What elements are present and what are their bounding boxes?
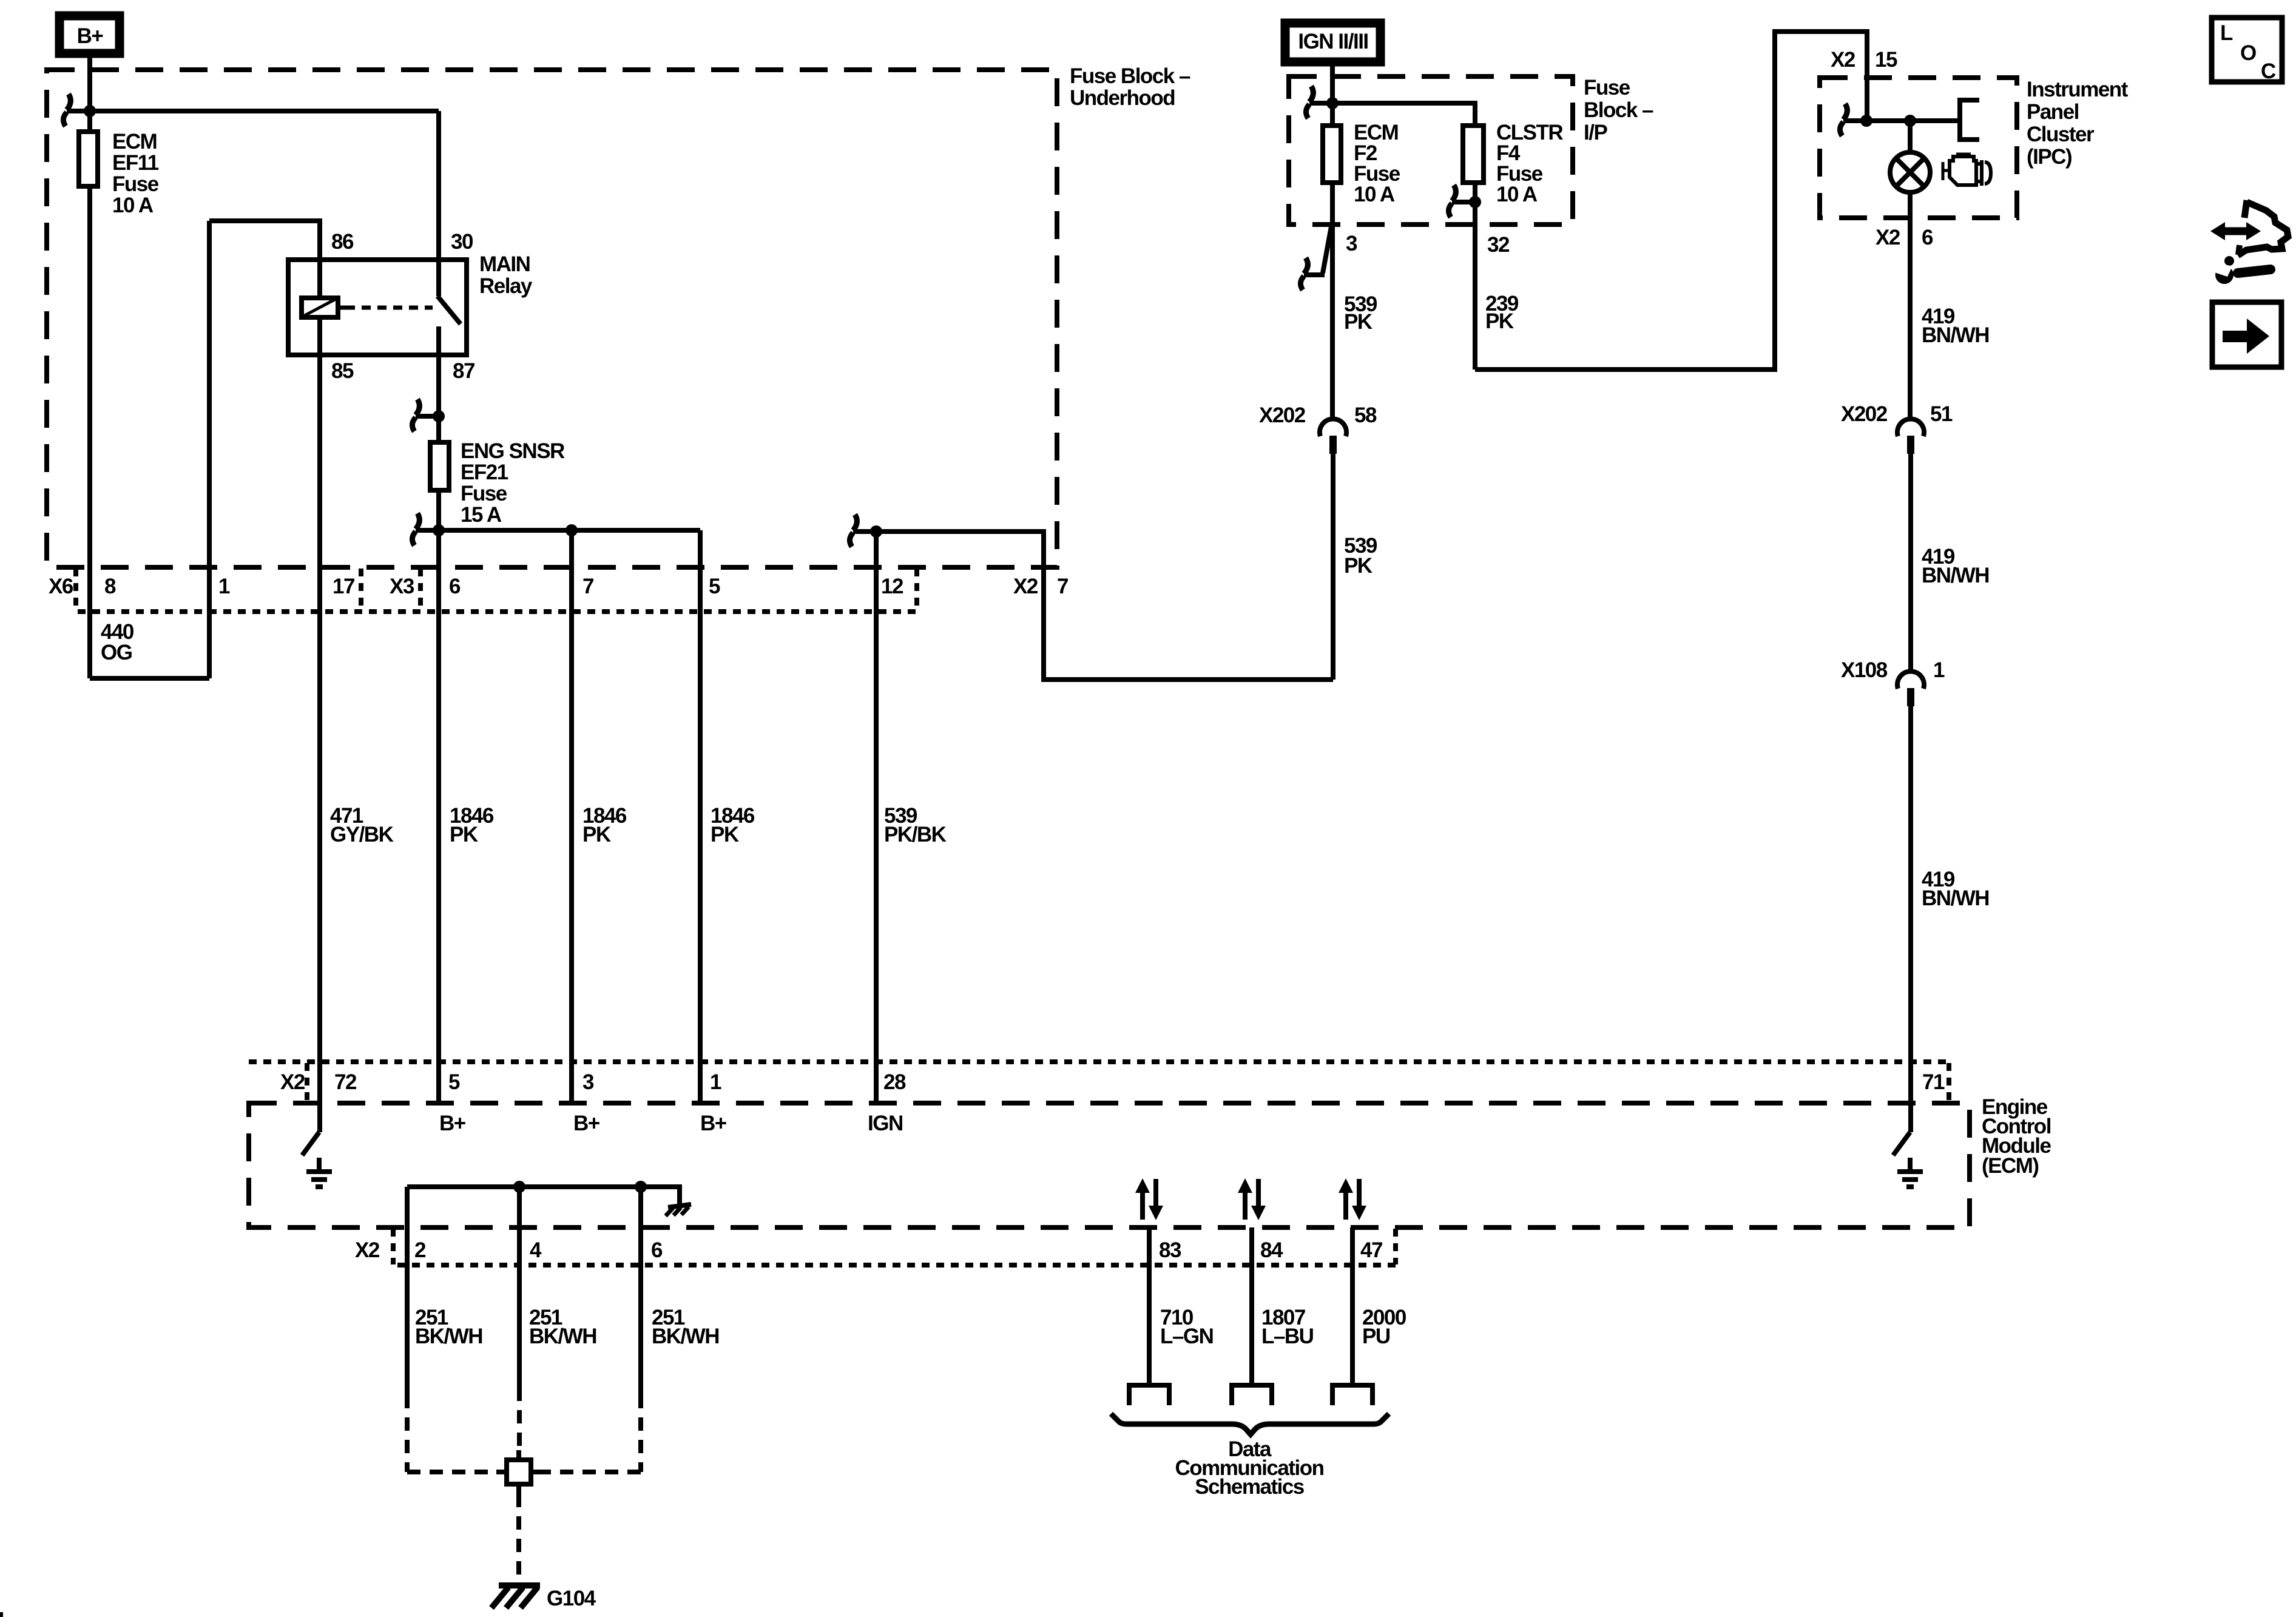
- wire relay pin 85 down to ECM pin 72: [317, 320, 322, 1132]
- wire label 710 L-GN: [1160, 1306, 1213, 1348]
- wire IGN junction to fuse F4: [1332, 103, 1475, 123]
- ECM internal switch pin 71: [1893, 1132, 1910, 1155]
- ECM pin function labels: [439, 1112, 903, 1135]
- IPC dashed box: [1820, 78, 2017, 218]
- relay pin labels: [331, 230, 474, 383]
- splice S-point: [496, 1450, 541, 1494]
- svg-text:6: 6: [449, 575, 461, 598]
- svg-text:X202: X202: [1259, 403, 1306, 427]
- svg-text:C: C: [2261, 59, 2276, 83]
- svg-text:Fuse: Fuse: [1584, 76, 1630, 100]
- ground G104: [491, 1585, 596, 1610]
- svg-text:5: 5: [448, 1070, 460, 1094]
- ground inside ECM pin 71: [1897, 1158, 1923, 1187]
- svg-text:I/P: I/P: [1584, 121, 1607, 144]
- svg-text:BK/WH: BK/WH: [652, 1325, 719, 1348]
- wire label 2000 PU: [1362, 1306, 1406, 1348]
- svg-text:10 A: 10 A: [112, 194, 154, 217]
- wire label 419 BN/WH c: [1922, 868, 1989, 910]
- ECM internal switch pin 72: [302, 1132, 319, 1155]
- svg-text:72: 72: [334, 1070, 357, 1094]
- svg-text:X2: X2: [280, 1070, 305, 1094]
- wire 440 OG loop up: [207, 221, 212, 678]
- wire below X202 51: [1908, 454, 1913, 672]
- wire label 1846 PK c: [711, 804, 755, 846]
- wire 440 OG loop bottom: [90, 676, 209, 681]
- svg-text:8: 8: [104, 575, 116, 598]
- svg-text:X6: X6: [49, 575, 73, 598]
- inline connector X202 58: [1259, 403, 1377, 454]
- svg-text:PK: PK: [1344, 554, 1373, 578]
- svg-text:B+: B+: [700, 1112, 727, 1135]
- svg-text:Cluster: Cluster: [2027, 123, 2095, 146]
- svg-text:17: 17: [333, 575, 354, 598]
- connector curl at IGN junction: [1306, 86, 1332, 118]
- data link arrows 84: [1238, 1178, 1266, 1220]
- connector branch stub at pin 3: [1300, 223, 1332, 290]
- wire 251 a: [405, 1187, 410, 1395]
- svg-text:PK/BK: PK/BK: [884, 823, 947, 846]
- svg-text:Fuse Block –: Fuse Block –: [1070, 64, 1190, 88]
- wire data 84: [1249, 1227, 1254, 1385]
- svg-text:Schematics: Schematics: [1195, 1475, 1305, 1499]
- svg-text:B+: B+: [573, 1112, 600, 1135]
- relay switch blade: [437, 296, 461, 324]
- wire label 1846 PK b: [582, 804, 627, 846]
- wire relay pin 87 down to ECM pin 5: [436, 326, 441, 1103]
- wire fuse F4 down: [1473, 185, 1477, 370]
- svg-text:B+: B+: [439, 1112, 466, 1135]
- svg-text:3: 3: [1346, 232, 1357, 255]
- diagnostic tool icon hook: [2238, 200, 2288, 255]
- svg-text:L–GN: L–GN: [1160, 1325, 1213, 1348]
- wire 251 c: [638, 1187, 643, 1395]
- node IGN junction: [1326, 97, 1339, 109]
- svg-text:30: 30: [451, 230, 473, 254]
- ground inside ECM pin 72: [306, 1158, 332, 1187]
- svg-text:28: 28: [883, 1070, 906, 1094]
- svg-text:12: 12: [881, 575, 903, 598]
- svg-text:EF21: EF21: [461, 461, 508, 484]
- svg-text:7: 7: [1057, 575, 1068, 598]
- connector row labels X6: [49, 575, 1068, 598]
- svg-text:5: 5: [709, 575, 720, 598]
- ECM label: [1982, 1095, 2051, 1178]
- svg-text:X2: X2: [1831, 48, 1855, 72]
- fuse F2 ECM: [1323, 121, 1400, 206]
- bus wire left: [439, 528, 700, 533]
- IPC terminal bracket: [1960, 100, 1979, 140]
- wire label 539 PK lower: [1344, 534, 1377, 578]
- connector curl below relay 87: [412, 399, 439, 431]
- svg-text:PK: PK: [1344, 310, 1373, 334]
- wire 1846 PK second down: [569, 530, 574, 1103]
- data link arrows 47: [1339, 1178, 1366, 1220]
- dashed wire splice to ground: [516, 1494, 521, 1580]
- ECM dashed box: [249, 1103, 1970, 1227]
- wire bus right to X2 7: [876, 532, 1333, 680]
- connector curl at bus left: [412, 513, 439, 545]
- wire label 419 BN/WH a: [1922, 305, 1989, 347]
- arrow box: [2212, 302, 2281, 367]
- wire label 1807 L-BU: [1261, 1306, 1314, 1348]
- svg-text:Relay: Relay: [479, 274, 533, 298]
- fuse block underhood dashed box: [47, 70, 1057, 567]
- inline connector X108 1: [1841, 658, 1945, 706]
- svg-text:Fuse: Fuse: [112, 172, 159, 196]
- wire data 83: [1147, 1227, 1152, 1385]
- relay coil: [302, 298, 346, 317]
- svg-text:47: 47: [1360, 1238, 1382, 1262]
- svg-text:ENG SNSR: ENG SNSR: [461, 439, 565, 463]
- wire B+ junction to relay pin 30: [90, 109, 439, 113]
- X2 6 labels: [1876, 226, 1933, 249]
- wire from B+ down: [87, 53, 92, 678]
- wire label 471 GY/BK: [330, 804, 394, 846]
- brace data communication: [1111, 1414, 1389, 1434]
- svg-text:BN/WH: BN/WH: [1922, 564, 1989, 587]
- ECM bottom pin labels: [355, 1238, 1382, 1262]
- diagnostic tool icon wrench: [2215, 256, 2271, 284]
- relay MAIN box: [288, 252, 533, 355]
- svg-text:32: 32: [1487, 233, 1510, 257]
- diagnostic tool icon double arrow: [2210, 222, 2261, 240]
- svg-text:3: 3: [582, 1070, 594, 1094]
- node bus mid: [566, 524, 578, 536]
- chassis ground inside ECM: [666, 1204, 691, 1216]
- wire label 239 PK: [1485, 292, 1519, 333]
- wire fuse F2 down to X202 58: [1330, 185, 1335, 419]
- svg-text:1: 1: [218, 575, 230, 598]
- svg-text:X2: X2: [355, 1238, 380, 1262]
- connector curl below fuse F4: [1448, 185, 1475, 217]
- svg-text:84: 84: [1260, 1238, 1283, 1262]
- node B+ junction: [84, 105, 96, 117]
- fuse block IP dashed box: [1289, 76, 1573, 224]
- dashed wire to splice right: [541, 1395, 641, 1472]
- wire down to relay switch: [436, 111, 441, 296]
- wire label 251 BK/WH b: [529, 1306, 596, 1348]
- terminator 83: [1129, 1385, 1169, 1405]
- svg-text:BN/WH: BN/WH: [1922, 886, 1989, 910]
- ECM internal ground bus: [407, 1181, 680, 1206]
- svg-text:PK: PK: [582, 823, 611, 846]
- node bus right: [870, 525, 882, 538]
- connector curl at bus right: [849, 515, 876, 547]
- svg-text:1: 1: [1933, 658, 1945, 682]
- svg-text:Fuse: Fuse: [461, 482, 507, 505]
- IPC label: [2027, 78, 2129, 169]
- svg-text:15 A: 15 A: [461, 503, 502, 527]
- svg-text:PK: PK: [450, 823, 478, 846]
- terminator 47: [1332, 1385, 1373, 1405]
- svg-text:2: 2: [414, 1238, 426, 1262]
- svg-text:1: 1: [710, 1070, 721, 1094]
- svg-text:X3: X3: [390, 575, 414, 598]
- dashed wire to splice mid: [517, 1388, 522, 1450]
- svg-text:OG: OG: [101, 641, 132, 664]
- inline connector X202 51: [1841, 402, 1953, 454]
- node bus left: [433, 524, 445, 536]
- svg-text:(ECM): (ECM): [1982, 1154, 2039, 1178]
- svg-text:6: 6: [1922, 226, 1933, 249]
- connector curl inside IPC: [1840, 104, 1866, 136]
- engine icon MIL: [1943, 154, 1991, 186]
- svg-text:58: 58: [1354, 403, 1377, 427]
- page corner mark: [0, 1612, 3, 1617]
- X2 15 labels: [1831, 48, 1897, 72]
- svg-text:BK/WH: BK/WH: [529, 1325, 596, 1348]
- wire label 1846 PK a: [450, 804, 494, 846]
- power box IGN II/III: [1285, 23, 1380, 62]
- svg-text:PK: PK: [711, 823, 739, 846]
- wire 239 PK to IPC: [1475, 32, 1867, 370]
- fuse block IP label: [1584, 76, 1653, 144]
- svg-text:ECM: ECM: [112, 130, 157, 154]
- wire below X108 1 to ECM pin 71: [1908, 706, 1913, 1132]
- svg-text:IGN II/III: IGN II/III: [1298, 30, 1368, 53]
- data link arrows 83: [1135, 1178, 1163, 1220]
- svg-text:L: L: [2220, 21, 2233, 45]
- svg-text:X2: X2: [1876, 226, 1900, 249]
- svg-text:4: 4: [530, 1238, 542, 1262]
- svg-text:O: O: [2240, 41, 2256, 65]
- power box B+: [59, 16, 120, 53]
- svg-text:EF11: EF11: [112, 151, 159, 175]
- fuse F4 CLSTR: [1463, 121, 1563, 206]
- indicator lamp: [1890, 152, 1930, 192]
- fuse block underhood label: [1070, 64, 1190, 110]
- svg-text:IGN: IGN: [868, 1112, 903, 1135]
- svg-text:51: 51: [1930, 402, 1953, 426]
- svg-text:10 A: 10 A: [1354, 183, 1395, 206]
- IPC internal wire: [1866, 118, 1960, 123]
- wire label 251 BK/WH a: [415, 1306, 482, 1348]
- wire 539 PK below X202: [1331, 454, 1335, 680]
- wire IGN to fuse F2: [1330, 62, 1335, 185]
- wire label 539 PK upper: [1344, 292, 1377, 334]
- wire 539 PK/BK down: [874, 532, 879, 1103]
- fuse EF21 ENG SNSR: [430, 439, 565, 527]
- svg-text:Underhood: Underhood: [1070, 86, 1175, 110]
- wire to lamp: [1908, 121, 1913, 153]
- svg-text:BK/WH: BK/WH: [415, 1325, 482, 1348]
- svg-text:L–BU: L–BU: [1261, 1325, 1314, 1348]
- svg-text:GY/BK: GY/BK: [330, 823, 394, 846]
- wire 251 b: [517, 1187, 522, 1388]
- svg-text:85: 85: [331, 359, 354, 383]
- wire to relay coil pin 86: [209, 221, 320, 295]
- connector row dotted line: [76, 569, 917, 612]
- svg-text:(IPC): (IPC): [2027, 145, 2071, 169]
- svg-text:G104: G104: [547, 1587, 596, 1610]
- wire data 47: [1350, 1227, 1355, 1385]
- svg-text:83: 83: [1159, 1238, 1181, 1262]
- svg-text:B+: B+: [77, 24, 104, 48]
- svg-text:Instrument: Instrument: [2027, 78, 2129, 101]
- wire label 539 PK/BK: [884, 804, 947, 846]
- svg-text:15: 15: [1875, 48, 1897, 72]
- svg-text:Block –: Block –: [1584, 98, 1653, 122]
- dashed wire to splice left: [407, 1395, 496, 1472]
- node IPC junction 2: [1904, 115, 1916, 127]
- svg-text:7: 7: [582, 575, 593, 598]
- ECM top pin row dotted line: [249, 1062, 1949, 1102]
- svg-text:71: 71: [1922, 1070, 1945, 1094]
- svg-text:X202: X202: [1841, 402, 1888, 426]
- svg-text:BN/WH: BN/WH: [1922, 323, 1989, 347]
- svg-text:PK: PK: [1485, 309, 1514, 333]
- fuse EF11: [79, 130, 159, 217]
- node below fuse F4: [1469, 196, 1481, 208]
- wire lamp down: [1908, 192, 1913, 419]
- connector curl at B+ junction: [63, 94, 90, 126]
- svg-text:86: 86: [331, 230, 354, 254]
- node IPC junction 1: [1860, 115, 1872, 127]
- svg-text:10 A: 10 A: [1496, 183, 1538, 206]
- node below relay 87: [433, 410, 445, 422]
- svg-text:X2: X2: [1013, 575, 1038, 598]
- wire label 419 BN/WH b: [1922, 545, 1989, 587]
- svg-text:PU: PU: [1362, 1325, 1390, 1348]
- terminator 84: [1232, 1385, 1272, 1405]
- svg-text:6: 6: [651, 1238, 663, 1262]
- svg-text:87: 87: [453, 359, 474, 383]
- ECM bottom pin row dotted line: [393, 1229, 1396, 1265]
- svg-text:X108: X108: [1841, 658, 1888, 682]
- wire 1846 PK third down: [698, 530, 703, 1103]
- wire label 440 OG: [101, 620, 134, 664]
- LOC box: [2212, 18, 2282, 83]
- svg-text:MAIN: MAIN: [479, 252, 530, 276]
- svg-text:Panel: Panel: [2027, 100, 2079, 124]
- data communication schematics label: [1175, 1437, 1324, 1499]
- relay coil-switch dashed link: [346, 306, 433, 310]
- wire label 251 BK/WH c: [652, 1306, 719, 1348]
- ECM top pin labels: [280, 1070, 1945, 1094]
